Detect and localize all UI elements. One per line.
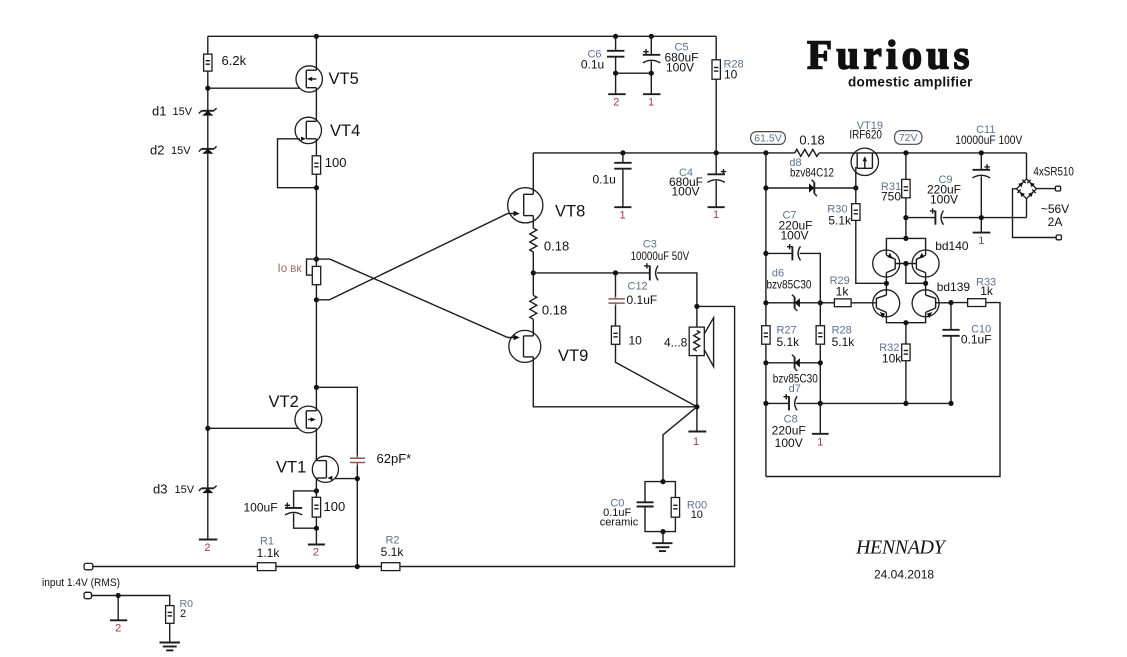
resistor R33 1k <box>968 299 986 307</box>
node C8 right column <box>818 401 823 406</box>
rail tap 1 under C4 <box>708 206 725 208</box>
wire trimmer to node <box>315 285 317 300</box>
wire C9 to C11 <box>943 217 1027 219</box>
svg-text:bd140: bd140 <box>935 239 969 253</box>
svg-text:100V: 100V <box>775 436 803 450</box>
svg-text:2: 2 <box>613 97 619 109</box>
wire 10 to junction <box>616 344 697 407</box>
wire C3 to speaker top <box>657 273 697 327</box>
svg-text:100uF: 100uF <box>244 501 278 515</box>
resistor 100 (VT4 source) <box>312 156 320 174</box>
wire d7 branch <box>766 362 820 364</box>
svg-text:100V: 100V <box>930 193 958 207</box>
svg-text:1: 1 <box>978 235 984 247</box>
wire left rail upper <box>207 36 209 54</box>
node 0.1u tap <box>620 150 625 155</box>
wire R0 to ground <box>169 623 171 642</box>
capacitor C7 <box>787 244 801 260</box>
capacitor 62pF <box>350 456 365 466</box>
wire bridge bottom feed <box>1026 199 1028 218</box>
resistor 0.18 (VT8) <box>530 228 537 252</box>
wire C6 bottom <box>615 57 617 94</box>
transistor VT4 <box>295 117 321 143</box>
node speaker top / riser <box>694 304 699 309</box>
wire R31 bottom <box>905 198 907 239</box>
node d6 left <box>763 300 768 305</box>
wire bridge to terminal plus <box>1036 188 1055 190</box>
wire C7 branch <box>766 252 793 254</box>
resistor 100 (VT1 source) <box>312 497 320 517</box>
wire bridge top feed <box>1026 153 1028 179</box>
node trimmer bottom <box>314 297 319 302</box>
wire R32 top <box>905 323 907 344</box>
node C10 bottom <box>948 401 953 406</box>
svg-text:2: 2 <box>313 547 319 559</box>
svg-text:VT9: VT9 <box>558 347 588 365</box>
bridge 4xSR510 <box>1017 179 1037 199</box>
terminal plus <box>1055 186 1060 191</box>
wire bus to feedback riser <box>400 306 735 566</box>
node output junction <box>694 404 699 409</box>
wire right column mid <box>819 303 821 326</box>
rail tap 2 under C6 <box>608 93 626 95</box>
svg-text:domestic amplifier: domestic amplifier <box>848 75 973 90</box>
wire 100 to node <box>315 174 317 266</box>
svg-text:5.1k: 5.1k <box>828 214 852 228</box>
capacitor 100uF <box>285 503 303 515</box>
svg-text:1k: 1k <box>980 284 994 298</box>
svg-text:10k: 10k <box>882 352 902 366</box>
svg-text:0.1u: 0.1u <box>581 58 604 72</box>
speaker 4...8 <box>689 318 713 367</box>
svg-text:2A: 2A <box>1048 215 1063 229</box>
node C11 bottom <box>979 215 984 220</box>
wire C11 bottom <box>980 176 982 232</box>
svg-text:0.18: 0.18 <box>542 303 567 318</box>
wire Q1 collector <box>885 273 887 296</box>
wire VT5 gate <box>208 87 300 89</box>
svg-text:100V: 100V <box>780 229 808 243</box>
wire bridge AC leg <box>1013 189 1057 238</box>
node 100 bottom <box>314 526 319 531</box>
capacitor C4 <box>707 153 726 183</box>
node bus junction <box>355 564 360 569</box>
node C9 tap <box>903 215 908 220</box>
wire joined bases <box>895 263 916 265</box>
svg-text:0.1uF: 0.1uF <box>961 333 992 347</box>
svg-text:d2: d2 <box>150 143 164 158</box>
svg-text:15V: 15V <box>175 484 195 496</box>
wire left power column <box>765 153 767 477</box>
wire C0 pair bottom <box>645 507 675 532</box>
wire C7 to right column <box>800 253 821 302</box>
svg-text:d1: d1 <box>152 104 166 119</box>
svg-text:bd139: bd139 <box>937 280 971 294</box>
wire VT1 source to node <box>315 478 317 497</box>
node output right <box>948 300 953 305</box>
wire 62pF to bus <box>356 465 358 566</box>
svg-text:10000uF 100V: 10000uF 100V <box>955 133 1022 147</box>
svg-text:0.1uF: 0.1uF <box>627 293 658 307</box>
wire R1 to R2 <box>276 566 382 568</box>
rail tap 1 junction <box>688 431 706 433</box>
svg-text:100: 100 <box>325 155 347 170</box>
wire C3 link <box>533 272 650 274</box>
resistor R2 <box>381 563 400 571</box>
wire d8 branch <box>766 187 856 189</box>
wire R28 column <box>715 36 717 60</box>
wire R30 column <box>855 188 857 204</box>
wire VT2 gate <box>208 427 298 429</box>
svg-text:5.1k: 5.1k <box>777 335 801 349</box>
wire Q3 base stub <box>875 302 876 304</box>
wire d1 to d2 <box>207 116 209 149</box>
terminal input cold <box>84 592 91 598</box>
svg-text:100V: 100V <box>671 185 699 199</box>
svg-text:10000uF 50V: 10000uF 50V <box>631 249 690 263</box>
wire R28 to rail <box>715 79 717 153</box>
node trimmer top <box>314 257 319 262</box>
wire left rail middle <box>207 154 209 489</box>
capacitor C10 <box>942 330 959 336</box>
svg-text:24.04.2018: 24.04.2018 <box>874 568 934 582</box>
wire d3 to rail tap <box>207 493 209 539</box>
ground under C0 <box>652 543 672 551</box>
node C5 top <box>649 34 654 39</box>
node d7 right <box>818 360 823 365</box>
wire C0 pair frame <box>645 482 675 502</box>
terminal input hot <box>84 563 93 569</box>
wire Q2 collector <box>925 273 927 296</box>
wire C0 ground stem <box>662 532 664 544</box>
node VT1 gate junction <box>355 476 360 481</box>
svg-text:d3: d3 <box>153 482 167 497</box>
wire input bus <box>93 566 258 568</box>
wire R32 bottom <box>905 361 907 404</box>
node d7 left <box>763 360 768 365</box>
wire right column tap <box>819 403 821 433</box>
wire rail to VT2 <box>315 300 317 411</box>
svg-text:2: 2 <box>204 542 210 554</box>
capacitor C6 <box>607 51 624 57</box>
wire VT4 source <box>315 139 317 156</box>
svg-text:~56V: ~56V <box>1041 202 1069 216</box>
transistor VT1 <box>312 456 338 482</box>
node VT4 feedback <box>314 185 319 190</box>
resistor 6.2k <box>204 54 212 71</box>
rail tap 2 under VT1 <box>308 544 325 546</box>
wire VT19 gate <box>855 167 857 188</box>
wire 61.5V rail right part <box>819 152 1026 154</box>
wire VT8 source <box>532 216 534 228</box>
transistor VT5 <box>296 66 322 92</box>
zener d3 15V <box>199 486 217 494</box>
transistor VT19 <box>851 148 878 175</box>
wire speaker to junction <box>696 356 698 432</box>
wire diagonal to VT9 gate <box>316 259 516 337</box>
svg-text:VT2: VT2 <box>269 393 299 411</box>
svg-text:Io вк: Io вк <box>278 263 303 275</box>
svg-text:input 1.4V (RMS): input 1.4V (RMS) <box>42 577 120 589</box>
rail tap 1 under C11 <box>973 232 991 234</box>
wire VT9 source to junction <box>533 357 697 407</box>
svg-text:15V: 15V <box>171 145 191 157</box>
resistor R28 (10) <box>712 60 720 79</box>
capacitor C3 <box>644 263 658 280</box>
wire C9 branch <box>906 217 936 219</box>
wire bases to right collector node <box>906 264 926 284</box>
zener d8 <box>809 180 817 196</box>
node VT2 drain / 62pF tap <box>314 385 319 390</box>
zener d2 15V <box>199 146 217 154</box>
rail tap 1 under 0.1u <box>614 206 631 208</box>
svg-text:1: 1 <box>817 437 823 449</box>
node R32 bottom <box>903 401 908 406</box>
svg-text:1: 1 <box>619 210 625 222</box>
svg-text:ceramic: ceramic <box>600 517 639 529</box>
svg-text:bzv85C30: bzv85C30 <box>767 278 812 292</box>
capacitor 0.1u (by C4) <box>614 163 631 169</box>
wire C12 to 10 <box>615 306 617 326</box>
wire C10 top <box>950 303 952 330</box>
wire C6 top <box>615 36 617 51</box>
wire output to R33 <box>951 302 968 304</box>
svg-text:0.1u: 0.1u <box>593 173 616 187</box>
capacitor C12 <box>608 273 624 306</box>
node C0 bottom <box>660 529 665 534</box>
capacitor C0 <box>637 502 654 506</box>
wire VT2 source to VT1 <box>315 428 317 460</box>
node C6 top <box>613 34 618 39</box>
zener d7 <box>792 355 800 371</box>
capacitor C5 <box>643 49 661 63</box>
wire d6 branch <box>766 302 820 304</box>
svg-text:1: 1 <box>713 209 719 221</box>
node C4 top <box>714 150 719 155</box>
wire R29 branch <box>820 302 834 304</box>
wire right column to d7 <box>819 344 821 403</box>
svg-text:bzv84C12: bzv84C12 <box>790 166 834 180</box>
svg-text:HENNADY: HENNADY <box>855 537 947 559</box>
wire C6-C5 link <box>616 72 652 74</box>
transistor Q3 bd139 left <box>873 290 900 318</box>
svg-text:VT8: VT8 <box>555 203 585 221</box>
svg-text:5.1k: 5.1k <box>381 545 405 559</box>
svg-text:d7: d7 <box>789 383 801 395</box>
svg-text:VT1: VT1 <box>276 459 306 477</box>
wire input ground branch <box>92 596 170 606</box>
rail tap 1 right column <box>812 433 829 435</box>
svg-text:0.18: 0.18 <box>799 133 824 148</box>
wire C4 bottom <box>715 181 717 207</box>
node 100uF top <box>314 488 319 493</box>
wire C10 bottom <box>950 336 952 404</box>
node C8 left <box>763 401 768 406</box>
wire 0.18 to node <box>532 252 534 295</box>
node C0 top <box>660 479 665 484</box>
svg-text:5.1k: 5.1k <box>832 335 856 349</box>
transistor VT9 <box>509 330 541 362</box>
resistor R28b 5.1k <box>816 326 824 345</box>
node top link <box>903 236 908 241</box>
svg-text:1.1k: 1.1k <box>257 546 281 560</box>
wire 62pF branch top <box>316 387 357 455</box>
zener d1 15V <box>199 108 217 116</box>
wire VT8 drain <box>532 153 534 194</box>
node VT5 drain on top rail <box>314 34 319 39</box>
label box 61.5V <box>751 132 786 145</box>
node bottom link <box>903 320 908 325</box>
svg-text:61.5V: 61.5V <box>754 133 781 145</box>
node d8 left <box>763 185 768 190</box>
svg-text:2: 2 <box>180 608 186 620</box>
trimmer Io vk <box>307 259 321 285</box>
resistor R32 10k <box>902 344 910 361</box>
transistor VT2 <box>295 406 322 433</box>
node input branch <box>116 593 121 598</box>
wire 100 to tap <box>315 517 317 544</box>
svg-text:C12: C12 <box>628 281 648 293</box>
node VT8 source junction <box>531 270 536 275</box>
resistor 0.18 rail <box>795 149 819 156</box>
wire 0.1u cap bottom <box>622 169 624 208</box>
rail tap 2 input <box>110 619 127 621</box>
wire 100uF branch bottom <box>294 513 317 528</box>
capacitor C9 <box>930 208 944 224</box>
node C5 bottom <box>649 71 654 76</box>
svg-text:750: 750 <box>881 190 901 204</box>
transistor VT8 <box>508 188 543 223</box>
svg-text:10: 10 <box>724 68 738 82</box>
svg-text:0.18: 0.18 <box>544 239 569 254</box>
node VT19 gate <box>853 185 858 190</box>
wire junction to C0 <box>663 407 697 482</box>
node C6 bottom <box>613 71 618 76</box>
svg-text:15V: 15V <box>173 106 193 118</box>
transistor Q2 bd140 right <box>912 250 939 277</box>
wire diagonal to VT8 gate <box>316 214 516 300</box>
svg-text:VT5: VT5 <box>329 70 359 88</box>
wire R31 top <box>905 153 907 180</box>
wire VT5 drain <box>315 36 317 70</box>
svg-text:2: 2 <box>115 623 121 635</box>
capacitor C8 <box>784 394 798 410</box>
svg-text:6.2k: 6.2k <box>222 53 247 68</box>
svg-text:10: 10 <box>629 334 643 348</box>
resistor R29 1k <box>834 299 851 307</box>
svg-text:10: 10 <box>691 509 703 521</box>
svg-text:1k: 1k <box>836 285 850 299</box>
wire Q4 base stub <box>936 302 951 304</box>
node R31 top <box>903 150 908 155</box>
node VT2 gate tap <box>205 426 210 431</box>
svg-text:VT4: VT4 <box>330 122 360 140</box>
svg-text:1: 1 <box>648 97 654 109</box>
wire R30 to collector node <box>856 220 886 283</box>
node left collectors <box>884 281 889 286</box>
wire to tap 2 input <box>117 596 119 621</box>
arrowhead VT9 gate <box>514 335 520 341</box>
terminal minus <box>1056 235 1061 240</box>
wire 6.2k to node <box>207 71 209 111</box>
wire C8 branch <box>766 402 789 404</box>
node joined bases <box>903 261 908 266</box>
svg-text:4xSR510: 4xSR510 <box>1033 165 1074 179</box>
node right collectors <box>923 281 928 286</box>
wire BJT top emitter link <box>886 238 925 255</box>
resistor 10 (zobel) <box>611 326 619 344</box>
svg-text:Furious: Furious <box>807 32 974 78</box>
transistor Q4 bd139 right <box>912 290 939 318</box>
svg-text:IRF620: IRF620 <box>849 127 882 141</box>
node d6 right <box>818 300 823 305</box>
svg-text:100V: 100V <box>666 61 694 75</box>
svg-text:1: 1 <box>693 436 699 448</box>
node left power column top <box>763 150 768 155</box>
ground under R0 <box>160 643 181 651</box>
wire top supply rail <box>208 35 716 37</box>
label box 72V <box>895 131 922 145</box>
arrowhead VT8 gate <box>514 211 520 217</box>
transistor Q1 bd140 left <box>873 250 900 277</box>
node C7 left <box>763 251 768 256</box>
wire C5 top <box>650 36 652 55</box>
wire C8 to C10 bottom <box>796 402 951 404</box>
wire 61.5V rail <box>533 152 795 154</box>
resistor R31 750 <box>902 179 910 197</box>
svg-text:4...8: 4...8 <box>664 336 688 350</box>
node C12 tap <box>613 270 618 275</box>
wire VT4 gate loop <box>278 139 317 188</box>
wire BJT bottom emitter link <box>886 312 925 322</box>
wire C5 bottom <box>650 61 652 94</box>
resistor R0 <box>166 606 174 624</box>
wire 100uF branch top <box>294 491 317 508</box>
resistor 0.18 (VT9) <box>530 295 537 319</box>
zener d6 <box>792 295 800 311</box>
resistor R27 5.1k <box>762 326 770 345</box>
node C11 top <box>979 150 984 155</box>
svg-text:72V: 72V <box>899 132 918 144</box>
wire R29 to base <box>851 302 875 304</box>
resistor R30 5.1k <box>852 204 860 221</box>
resistor R1 <box>257 563 276 571</box>
resistor R00 <box>671 498 679 518</box>
rail tap 2 left <box>199 539 218 541</box>
wire 0.1u cap top <box>622 153 624 163</box>
node 6.2k / VT5 gate <box>205 86 210 91</box>
wire VT1 gate <box>335 478 358 480</box>
svg-text:100: 100 <box>324 499 346 514</box>
wire 0.18 to VT9 <box>532 319 534 336</box>
svg-text:62pF*: 62pF* <box>377 451 412 466</box>
wire output loop <box>766 303 1000 477</box>
wire VT5 source to VT4 drain <box>315 88 317 122</box>
capacitor C11 <box>973 153 991 178</box>
rail tap 1 under C5 <box>643 93 661 95</box>
